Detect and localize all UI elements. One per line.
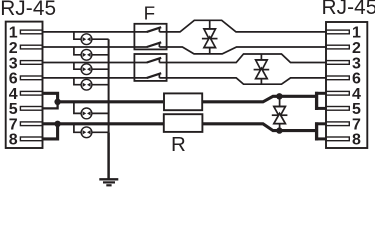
J1 pin 5 contact: [20, 107, 42, 111]
wire pin5: [43, 102, 58, 109]
svg-text:2: 2: [9, 40, 18, 57]
TVS D3 (pair 4/5 to 7/8): [272, 96, 288, 130]
TVS D1 (pair 1/2): [202, 20, 218, 54]
GDT G5 to bus: [92, 112, 109, 114]
right split pins 4/5: [315, 92, 318, 110]
wire pin2 fuse to bulge: [159, 47, 326, 54]
connector J2 box (right RJ-45): [326, 22, 367, 148]
svg-text:2: 2: [352, 40, 361, 57]
J1 pin 2 contact: [20, 45, 42, 49]
GDT G2 stub: [74, 47, 81, 55]
J1 pin 1 contact: [20, 30, 42, 34]
GDT G3 to bus: [92, 68, 109, 70]
junction dot TVS3 top: [276, 93, 282, 99]
connector J1 box (left RJ-45): [6, 22, 43, 148]
J2 pin 7 contact: [326, 122, 349, 126]
junction dot pair 4/5: [54, 99, 60, 105]
pair 7/8 line to R2: [58, 122, 163, 125]
GDT G2 to bus: [92, 54, 109, 56]
GDT G4 stub: [74, 78, 81, 85]
fuse box F1-F2: [134, 24, 166, 50]
fuse F4 output stub: [158, 74, 160, 78]
J2 pin 5 contact: [326, 107, 349, 111]
wire pin1 fuse to bulge: [159, 20, 326, 32]
GDT G2: [81, 49, 92, 60]
J2 pin 2 contact: [326, 45, 349, 49]
wire pin8 thick: [43, 124, 58, 139]
fuse F1 blade: [147, 27, 161, 32]
GDT G6 stub: [74, 124, 81, 133]
svg-text:R: R: [171, 133, 186, 156]
junction dot TVS3 bottom: [276, 127, 282, 133]
fuse box F3-F4: [134, 54, 166, 81]
J2 pin 1 contact: [326, 30, 349, 34]
J2 pin 4 contact: [326, 91, 349, 95]
GDT G3 stub: [74, 63, 81, 70]
GDT G6: [81, 127, 92, 138]
GDT G4: [81, 79, 92, 90]
J1 pin 6 contact: [20, 76, 42, 80]
svg-text:F: F: [144, 3, 155, 24]
GDT G5: [81, 108, 92, 119]
J1 pin 8 contact: [20, 137, 42, 141]
fuse F2 output stub: [158, 43, 160, 47]
J1 pin 7 contact: [20, 122, 42, 126]
wire pin7 thick: [43, 122, 58, 125]
J2 pin 6 contact: [326, 76, 349, 80]
wire pin4 thick: [43, 93, 58, 102]
fuse F3 output stub: [158, 58, 160, 62]
pair 4/5 line R1 to right: [202, 96, 317, 102]
wire pin1 left to fuse: [43, 31, 148, 33]
wire pin2 left to fuse: [43, 46, 148, 48]
svg-text:8: 8: [352, 132, 361, 149]
fuse F2 blade: [147, 42, 161, 47]
J2 pin numbers: [352, 25, 361, 149]
resistor R2: [164, 114, 203, 132]
resistor R1: [164, 93, 202, 110]
pair 4/5 line to R1: [58, 100, 163, 103]
fuse F4 blade: [147, 73, 161, 78]
right split pins 7/8: [315, 122, 318, 140]
GDT G1 stub: [74, 32, 81, 39]
GDT G3: [81, 64, 92, 75]
J1 pin 3 contact: [20, 61, 42, 65]
junction dot pair 7/8: [54, 121, 60, 127]
J1 pin 4 contact: [20, 91, 42, 95]
fuse F3 blade: [147, 58, 161, 63]
svg-text:RJ-45: RJ-45: [0, 0, 56, 20]
GDT G6 to bus: [92, 131, 109, 133]
svg-text:RJ-45: RJ-45: [322, 0, 375, 19]
wire pin3 fuse to bulge: [159, 54, 326, 63]
TVS D2 (pair 3/6): [254, 54, 270, 84]
J1 pin numbers: [9, 25, 18, 149]
GDT G1 to bus: [92, 38, 109, 40]
wire pin6 fuse to bulge: [159, 78, 326, 84]
J2 pin 8 contact: [326, 137, 349, 141]
J2 pin 3 contact: [326, 61, 349, 65]
ground stem: [107, 132, 110, 179]
svg-text:8: 8: [9, 132, 18, 149]
GDT G1: [81, 34, 92, 45]
ground bus: [108, 39, 110, 132]
pair 7/8 line R2 to right: [202, 124, 317, 131]
GDT G4 to bus: [92, 84, 109, 86]
wire pin3 left to fuse: [43, 62, 148, 64]
fuse F1 output stub: [158, 28, 160, 32]
wire pin6 left to fuse: [43, 77, 148, 79]
ground: [99, 178, 118, 180]
GDT G5 stub: [74, 102, 81, 114]
